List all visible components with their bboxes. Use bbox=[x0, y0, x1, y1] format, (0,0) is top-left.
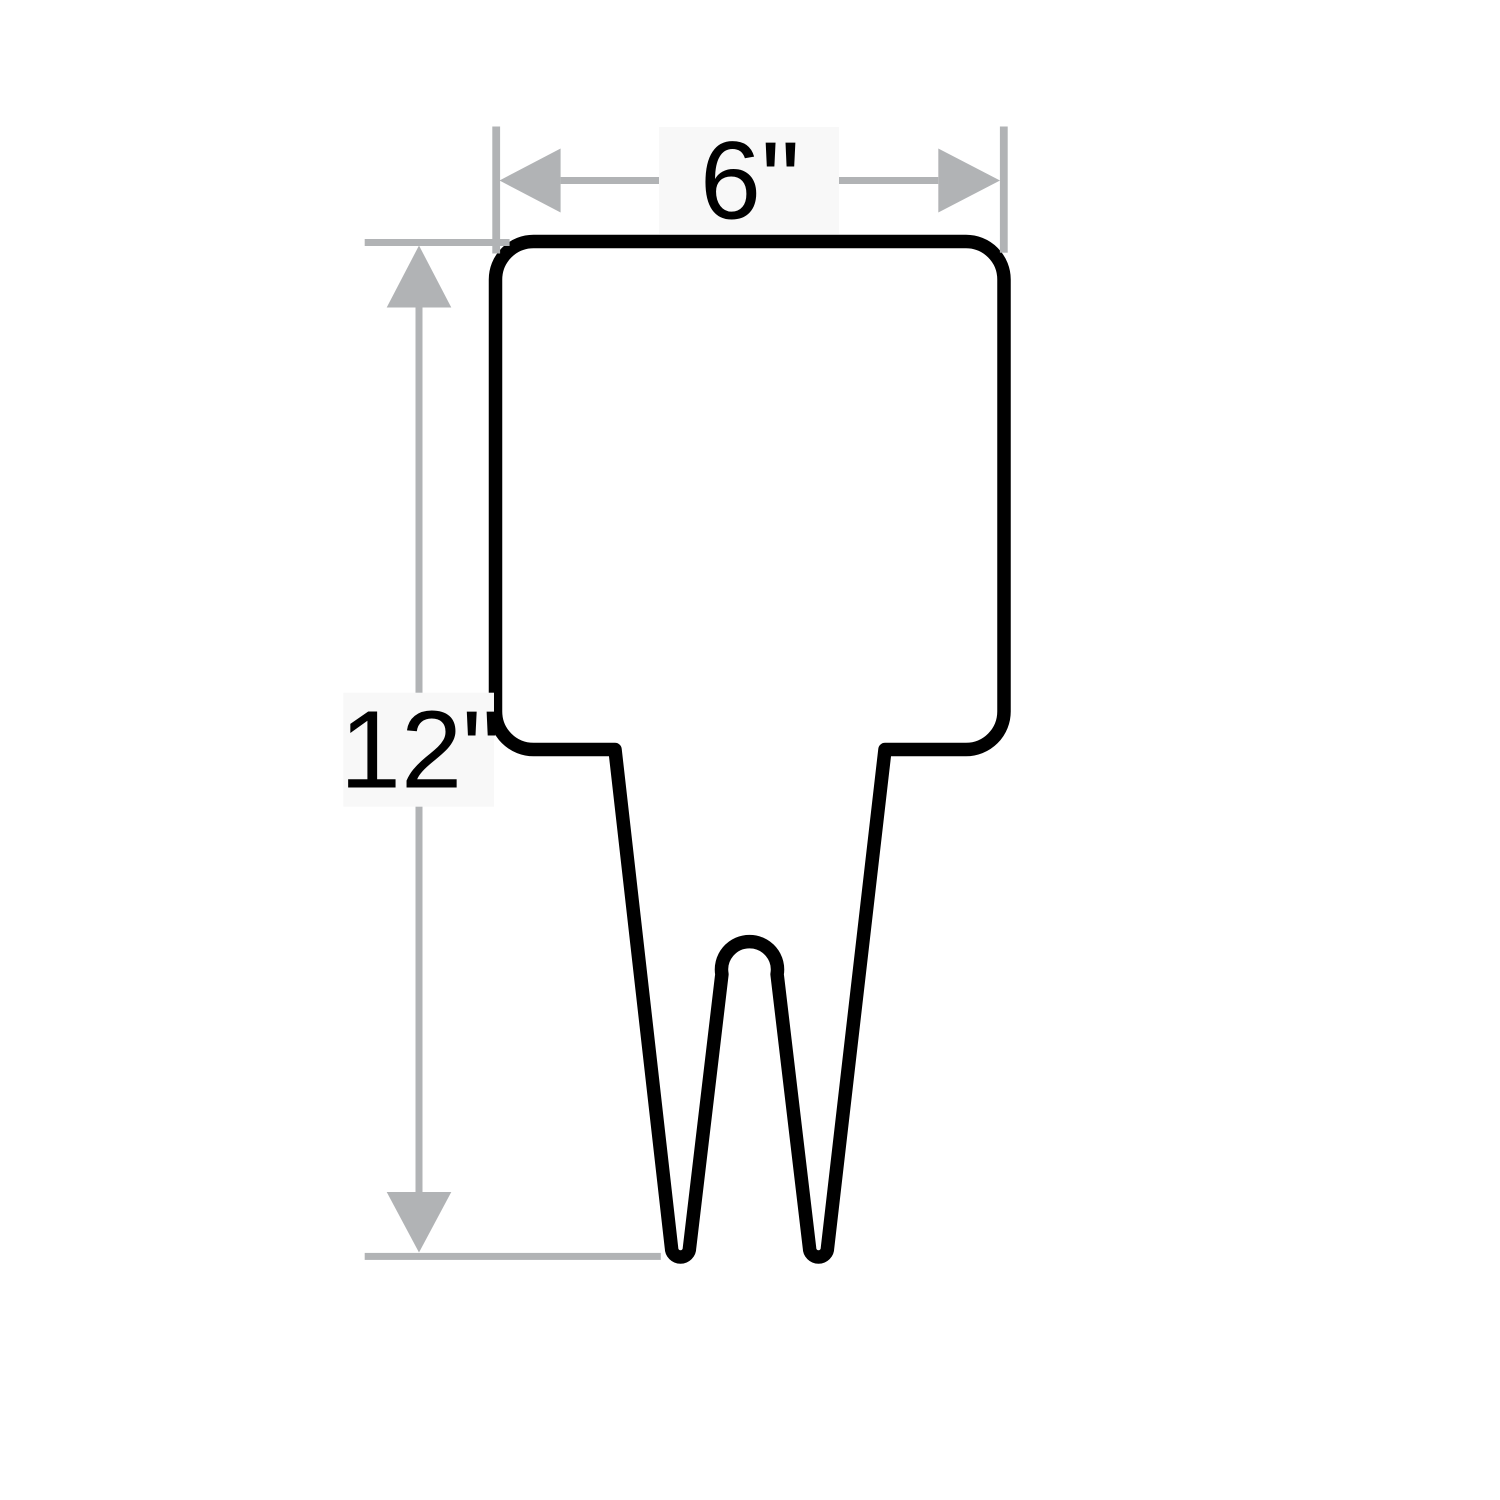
svg-text:6": 6" bbox=[700, 120, 800, 243]
height dimension: bottom arrowhead bbox=[387, 1192, 452, 1253]
width dimension line shaft bbox=[561, 177, 939, 184]
height dimension line shaft bbox=[416, 308, 423, 1193]
svg-text:12": 12" bbox=[340, 689, 501, 812]
label background box for 6 inch bbox=[659, 127, 839, 234]
yard sign stake silhouette bbox=[496, 242, 1005, 1258]
height dimension: top extension line bbox=[365, 239, 510, 246]
width dimension: left extension line bbox=[492, 127, 500, 254]
width dimension: right arrowhead bbox=[938, 149, 1000, 213]
height dimension: bottom extension line bbox=[365, 1253, 661, 1260]
width dimension: right extension line bbox=[1000, 127, 1008, 253]
label background box for 12 inch bbox=[343, 693, 494, 807]
height dimension: top arrowhead bbox=[387, 246, 452, 308]
width dimension: left arrowhead bbox=[500, 149, 561, 213]
